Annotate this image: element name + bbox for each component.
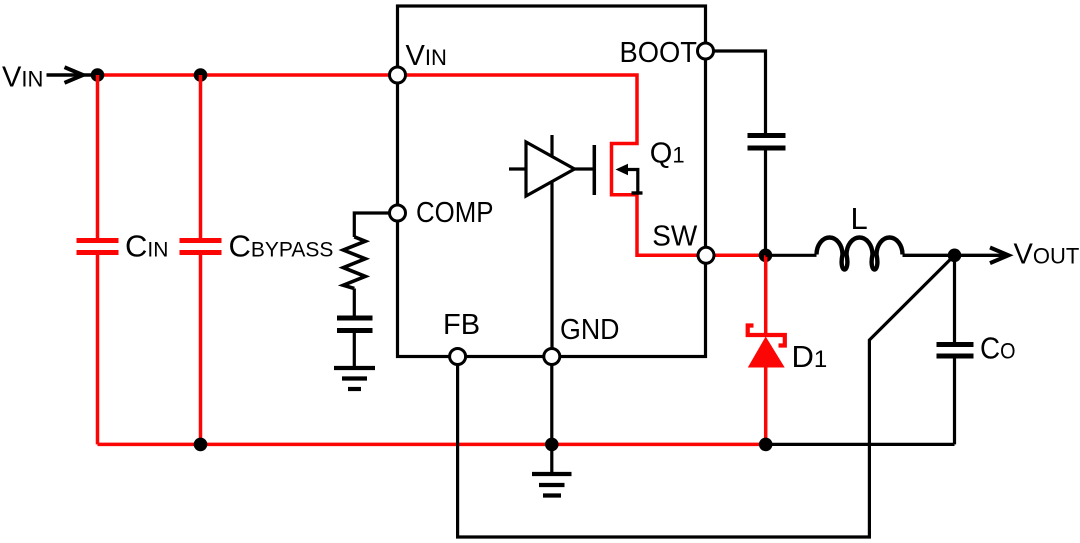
wire CO bottom to ground rail (black) xyxy=(766,443,955,446)
svg-text:Q1: Q1 xyxy=(650,138,685,170)
wire SW node to inductor xyxy=(766,254,817,257)
svg-text:SW: SW xyxy=(652,221,698,253)
node junction dot at VIN arrow xyxy=(91,68,105,82)
capacitor CBYPASS xyxy=(180,75,222,444)
wire GND pin to ground rail xyxy=(550,357,553,473)
wire resistor to capacitor xyxy=(353,289,356,317)
pin FB circle xyxy=(450,349,466,365)
svg-text:FB: FB xyxy=(443,309,480,341)
node junction dot D1 on ground rail xyxy=(759,438,773,452)
ground main symbol xyxy=(532,474,572,496)
resistor compensation R xyxy=(343,237,365,289)
pin VIN circle xyxy=(390,67,406,83)
wire FB feedback trace xyxy=(458,255,955,537)
node SW junction dot xyxy=(759,249,773,263)
node VOUT junction dot xyxy=(948,249,962,263)
node junction dot at CBYPASS tap xyxy=(194,68,208,82)
node junction dot GND on ground rail xyxy=(545,438,559,452)
wire VOUT arrowhead xyxy=(990,248,1009,264)
svg-text:L: L xyxy=(851,201,868,236)
pin SW circle xyxy=(698,247,714,263)
wire top input rail (red) xyxy=(98,73,398,77)
inductor L xyxy=(817,238,903,270)
wire COMP to compensation network xyxy=(354,213,397,237)
svg-text:COMP: COMP xyxy=(416,197,494,229)
svg-text:VIN: VIN xyxy=(2,62,43,94)
node junction dot CBYPASS on ground rail xyxy=(194,438,208,452)
diode D1 (red schottky) xyxy=(748,255,785,444)
wire VIN input arrow xyxy=(47,67,96,83)
transistor Q1 body arrow xyxy=(616,164,629,176)
svg-text:BOOT: BOOT xyxy=(620,37,698,69)
pin GND circle xyxy=(544,349,560,365)
transistor Q1 channel and drain/source path (red) xyxy=(398,75,766,255)
capacitor bootstrap (BOOT-SW) xyxy=(748,136,786,256)
op-amp U1 gate driver triangle xyxy=(509,135,594,356)
svg-text:VIN: VIN xyxy=(406,40,447,72)
pin BOOT circle xyxy=(698,43,714,59)
ground compensation network xyxy=(334,368,375,389)
transistor Q1 gate bar xyxy=(593,145,597,195)
svg-text:GND: GND xyxy=(560,314,620,346)
capacitor CIN xyxy=(77,75,119,444)
wire inductor to VOUT xyxy=(903,254,1007,257)
svg-text:VOUT: VOUT xyxy=(1014,239,1080,271)
IC U1 box outline xyxy=(398,6,706,357)
pin COMP circle xyxy=(390,205,406,221)
capacitor CO xyxy=(937,255,974,444)
wire BOOT to bootstrap capacitor xyxy=(706,51,766,133)
wire ground rail (red) xyxy=(98,443,766,447)
capacitor compensation C xyxy=(337,318,373,366)
